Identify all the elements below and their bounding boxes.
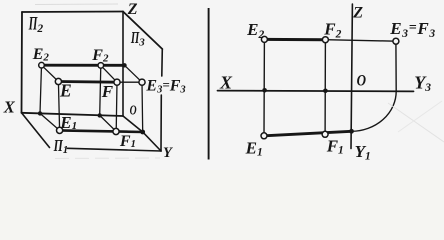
junction dot on X (F) — [98, 113, 102, 117]
point F2' — [322, 37, 328, 43]
plane P2 top edge — [22, 11, 123, 14]
axis Y — [123, 116, 161, 151]
wire E2 down to X — [40, 65, 42, 113]
svg-text:Z: Z — [352, 5, 363, 22]
svg-text:O: O — [357, 73, 367, 90]
point F — [114, 79, 120, 85]
svg-text:F: F — [101, 82, 114, 101]
junction dot on X axis (E) — [262, 88, 267, 93]
wire: faint scan streak right 1 — [388, 103, 444, 142]
axis X / Y3 — [218, 90, 414, 93]
wire F2-E3 — [325, 40, 396, 42]
segment E1-F1 extended to Y — [60, 130, 143, 132]
plane P3 top edge — [123, 12, 162, 50]
wire: faint scan streak right 2 — [398, 101, 442, 132]
wire E3 down to X axis — [395, 41, 397, 91]
svg-text:X: X — [219, 73, 233, 93]
axis Z — [122, 12, 124, 117]
junction dot on X (E) — [38, 111, 42, 115]
segment E1-F1 extended to Y1 — [264, 131, 352, 136]
transfer arc — [352, 91, 397, 131]
wire E3 down to Y — [141, 82, 144, 132]
point E3' — [393, 38, 399, 44]
wire E2-E1 — [263, 39, 265, 135]
svg-text:Z: Z — [127, 1, 138, 18]
point F2 — [98, 63, 104, 69]
wire F2-F — [101, 65, 117, 82]
plane P2 left edge — [21, 12, 24, 113]
wire: faint scan streak top — [35, 3, 118, 6]
wire: faint scan streak bottom — [55, 157, 160, 160]
plane P3 right edge — [161, 49, 162, 151]
wire F2-F1 — [324, 40, 326, 135]
svg-text:O: O — [130, 103, 137, 118]
junction dot on Y — [140, 130, 145, 135]
point E — [55, 78, 61, 84]
point F1' — [322, 131, 328, 137]
point E1' — [261, 133, 267, 139]
segment E2-F2 — [264, 38, 325, 41]
point E3 — [139, 79, 145, 85]
point E2' — [261, 36, 267, 42]
divider line — [208, 8, 210, 160]
plane P1 front edge — [68, 148, 162, 151]
wire E2-E — [42, 65, 59, 81]
point E2 — [39, 62, 45, 68]
svg-text:E: E — [59, 81, 72, 101]
axis Z / Y1 — [351, 4, 352, 149]
wire Xdot-F1 — [100, 115, 117, 131]
wire E-E1 — [58, 82, 59, 131]
segment E2-F2 extended to Z — [42, 64, 125, 67]
junction dot on X axis (F) — [323, 89, 328, 94]
point F1 — [113, 128, 119, 134]
svg-text:X: X — [3, 98, 16, 117]
junction dot on Z — [122, 63, 126, 67]
plane P1 left edge — [22, 113, 50, 148]
wire F-E3 — [117, 81, 142, 83]
segment E-F — [58, 80, 117, 83]
wire F-F1 — [115, 82, 118, 131]
svg-text:Y: Y — [163, 145, 173, 161]
wire F2 down to X — [100, 65, 101, 115]
junction dot on Y1 — [349, 129, 354, 134]
wire Zdot-E3 — [125, 65, 143, 82]
wire Xdot-E1 — [40, 113, 60, 130]
point E1 — [57, 127, 63, 133]
axis X — [22, 113, 124, 116]
